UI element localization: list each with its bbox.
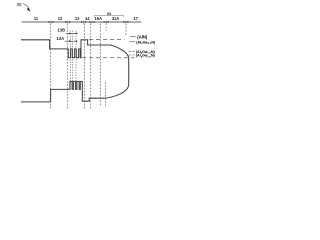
device outline xyxy=(21,40,129,102)
dimension line xyxy=(22,21,142,23)
vertical dashed boundary lines xyxy=(50,24,126,111)
svg-text:11: 11 xyxy=(34,16,39,21)
svg-text:13B: 13B xyxy=(58,27,66,32)
label (AlyGa1-yN) xyxy=(129,50,135,52)
leader arrow for 30 xyxy=(23,4,29,9)
svg-text:12: 12 xyxy=(58,16,63,21)
label (AlxGa1-xN) xyxy=(129,41,135,43)
leader (AlN) xyxy=(130,36,136,38)
svg-text:30: 30 xyxy=(17,2,22,7)
dashed level line AlN xyxy=(89,38,125,40)
svg-text:13: 13 xyxy=(75,16,80,21)
leader 13A xyxy=(65,40,77,42)
dimension arrowheads at boundaries xyxy=(49,21,129,23)
sub-layer dashed lines 13A/13B xyxy=(70,31,76,90)
boundary ticks xyxy=(51,21,126,24)
svg-text:(AlyGa1-yN): (AlyGa1-yN) xyxy=(136,54,156,59)
svg-text:14: 14 xyxy=(85,16,90,21)
svg-text:17: 17 xyxy=(134,16,139,21)
svg-text:13A: 13A xyxy=(57,36,65,41)
svg-text:31A: 31A xyxy=(112,16,120,21)
bracket 31 xyxy=(94,15,123,17)
svg-text:(AlxGa1-xN): (AlxGa1-xN) xyxy=(136,40,156,45)
svg-text:(AlN): (AlN) xyxy=(137,34,148,39)
label (AlzGa1-zN) xyxy=(129,54,135,56)
dashed level line lower xyxy=(82,57,135,59)
leader 13B xyxy=(66,32,78,34)
svg-text:15A: 15A xyxy=(94,16,102,21)
